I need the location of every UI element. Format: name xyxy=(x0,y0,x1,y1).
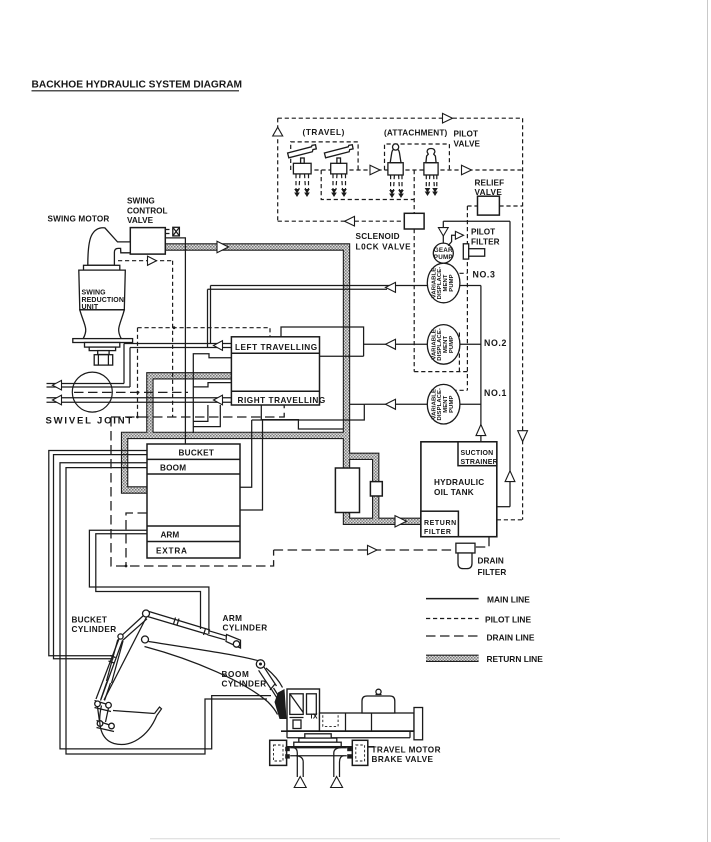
pilot loop dashed top line xyxy=(278,117,523,119)
svg-text:SUCTION: SUCTION xyxy=(461,450,494,457)
svg-text:PILOT: PILOT xyxy=(471,228,495,237)
swash control dashed net xyxy=(414,371,467,373)
gear pump xyxy=(433,243,453,263)
svg-text:BOOM: BOOM xyxy=(160,463,186,472)
svg-text:FILTER: FILTER xyxy=(471,238,500,247)
main line NO.2 xyxy=(364,343,430,345)
svg-text:CYLINDER: CYLINDER xyxy=(223,623,268,632)
swing pilot dashed xyxy=(118,260,173,262)
svg-text:DRAIN: DRAIN xyxy=(478,557,504,566)
brake pipes xyxy=(290,748,347,777)
drain dashed into filter xyxy=(475,537,489,547)
boom cylinder drawing xyxy=(259,667,280,699)
bucket cylinder lines xyxy=(49,451,147,656)
svg-text:(ATTACHMENT): (ATTACHMENT) xyxy=(384,129,448,138)
svg-text:RELIEF: RELIEF xyxy=(475,178,505,187)
small solenoid symbol right of valve xyxy=(165,229,172,231)
bucket cylinder drawing xyxy=(101,640,123,701)
RETURN LINE bands (black edges then hatched core) xyxy=(125,247,479,658)
travelling box bottom ports xyxy=(193,405,208,421)
svg-text:EXTRA: EXTRA xyxy=(156,546,188,555)
svg-text:UNIT: UNIT xyxy=(82,304,99,311)
dashed to solenoid from left with arrow xyxy=(278,220,405,222)
pilot return into tank xyxy=(497,519,523,521)
solenoid drain dashed down xyxy=(413,229,415,372)
svg-text:FILTER: FILTER xyxy=(424,529,452,536)
base rails xyxy=(281,730,414,732)
travel pilot valve 2 xyxy=(324,145,353,197)
svg-text:RIGHT TRAVELLING: RIGHT TRAVELLING xyxy=(238,396,326,405)
variable displacement pump NO.3 xyxy=(427,263,460,303)
travel pilot valve 1 xyxy=(288,145,317,197)
legend drain line sample xyxy=(426,635,479,637)
body deck xyxy=(320,713,415,731)
variable displacement pump NO.1 xyxy=(427,384,460,424)
svg-text:SWING MOTOR: SWING MOTOR xyxy=(48,215,110,224)
swing motor elbow xyxy=(88,228,131,266)
deck dashed swivel marker xyxy=(323,713,338,727)
svg-text:DRAIN LINE: DRAIN LINE xyxy=(487,633,535,643)
svg-text:LEFT TRAVELLING: LEFT TRAVELLING xyxy=(235,343,318,352)
main line NO.1 xyxy=(364,403,430,405)
gear pump suction from tank: top line xyxy=(443,220,510,222)
RT output pair through swivel xyxy=(47,397,232,399)
solenoid feed dashed vertical xyxy=(413,170,415,213)
svg-text:NO.3: NO.3 xyxy=(473,270,496,280)
svg-text:GEAR: GEAR xyxy=(434,247,453,254)
legend pilot line sample xyxy=(426,618,479,620)
travel valves dashed box xyxy=(291,142,358,170)
turntable xyxy=(305,734,331,738)
svg-text:SWING: SWING xyxy=(82,290,107,297)
return arrow into return filter xyxy=(395,516,407,527)
svg-text:FILTER: FILTER xyxy=(478,568,507,577)
pilot dashed to LT top xyxy=(138,328,271,337)
suction strainer xyxy=(458,442,497,466)
LT output pair xyxy=(124,343,231,345)
swivel drain dashed xyxy=(74,391,188,393)
end plate xyxy=(414,708,423,740)
cab xyxy=(287,689,320,731)
svg-text:BRAKE VALVE: BRAKE VALVE xyxy=(372,755,434,764)
svg-text:NO.2: NO.2 xyxy=(484,338,507,348)
pilot loop left vertical xyxy=(277,118,279,221)
bypass check valve xyxy=(370,482,382,496)
swivel pair upper xyxy=(47,383,125,385)
LT-RT crossover jogs xyxy=(193,354,231,433)
svg-text:BOOM: BOOM xyxy=(222,670,250,679)
svg-text:CYLINDER: CYLINDER xyxy=(72,625,117,634)
svg-text:MAIN LINE: MAIN LINE xyxy=(487,595,530,605)
hydraulic oil tank xyxy=(421,442,497,537)
track line xyxy=(269,746,375,748)
pilot loop right vertical xyxy=(522,118,524,520)
svg-text:ARM: ARM xyxy=(223,614,243,623)
svg-text:CONTROL: CONTROL xyxy=(127,206,167,215)
arm beam down-left to bucket xyxy=(96,616,147,701)
arrow right on top dashed line xyxy=(443,113,453,123)
relief valve xyxy=(478,196,500,215)
boom beam xyxy=(149,642,283,688)
gear pump to pilot filter elbow + arrow xyxy=(448,235,455,245)
legend main line sample xyxy=(426,598,479,600)
suction manifold line xyxy=(480,286,482,442)
attachment pilot valve 1 xyxy=(388,144,404,198)
svg-text:NO.1: NO.1 xyxy=(484,388,507,398)
return arrow on swing band xyxy=(217,241,229,252)
attachment pilot valve 2 xyxy=(424,149,438,197)
pilot center dashed line xyxy=(293,169,522,171)
svg-text:(TRAVEL): (TRAVEL) xyxy=(303,128,345,137)
svg-text:PUMP: PUMP xyxy=(434,254,453,261)
svg-text:SWING: SWING xyxy=(127,197,155,206)
page edge line xyxy=(707,0,709,842)
svg-text:BUCKET: BUCKET xyxy=(179,449,215,458)
svg-text:L0CK VALVE: L0CK VALVE xyxy=(356,243,412,252)
lower dashed box xyxy=(321,170,414,200)
main line NO.3 (double) xyxy=(211,285,431,287)
svg-text:OIL TANK: OIL TANK xyxy=(434,488,474,497)
solenoid lock valve xyxy=(404,213,424,229)
svg-text:VALVE: VALVE xyxy=(454,139,481,148)
svg-text:PILOT LINE: PILOT LINE xyxy=(485,615,531,625)
drain filter xyxy=(456,543,475,553)
extra port dashed xyxy=(126,513,147,566)
svg-text:VALVE: VALVE xyxy=(127,216,154,225)
arm cylinder lines xyxy=(89,530,208,634)
svg-text:CYLINDER: CYLINDER xyxy=(222,679,267,688)
arm cylinder drawing xyxy=(148,612,241,649)
svg-text:HYDRAULIC: HYDRAULIC xyxy=(434,478,484,487)
boom cylinder lines xyxy=(60,463,271,749)
svg-text:SCLENOID: SCLENOID xyxy=(356,232,400,241)
boom foot black bracket xyxy=(275,689,287,719)
relief drain dashed vertical (through pilot filter) xyxy=(466,206,468,390)
arrow up on left vertical xyxy=(273,127,283,136)
bucket linkage xyxy=(95,701,112,712)
svg-text:TRAVEL MOTOR: TRAVEL MOTOR xyxy=(372,746,441,755)
engine cover xyxy=(362,696,395,713)
svg-text:RETURN: RETURN xyxy=(424,520,457,527)
swing valve right line down xyxy=(165,238,185,444)
pilot filter xyxy=(463,244,468,259)
svg-text:PILOT: PILOT xyxy=(454,130,479,139)
oil cooler on return band xyxy=(335,468,359,513)
svg-text:BACKHOE HYDRAULIC SYSTEM DIAGR: BACKHOE HYDRAULIC SYSTEM DIAGRAM xyxy=(32,80,243,91)
drain line left xyxy=(111,417,274,566)
attachment valves dashed box xyxy=(385,144,450,170)
svg-text:STRAINER: STRAINER xyxy=(461,459,498,466)
variable displacement pump NO.2 xyxy=(427,325,460,365)
bucket scoop xyxy=(113,707,162,716)
travel motor brake valve left xyxy=(270,740,287,765)
swivel joint xyxy=(72,372,112,412)
travel motor brake valve right xyxy=(352,740,368,765)
svg-text:SWIVEL JOINT: SWIVEL JOINT xyxy=(46,416,134,427)
svg-text:REDUCTION: REDUCTION xyxy=(82,297,125,304)
svg-text:BUCKET: BUCKET xyxy=(72,616,108,625)
swing control valve xyxy=(130,228,165,255)
svg-text:VALVE: VALVE xyxy=(475,188,503,197)
return filter xyxy=(421,511,459,537)
pilot dashed to RT bottom xyxy=(111,405,284,417)
svg-text:ARM: ARM xyxy=(161,531,180,540)
swing reduction unit xyxy=(84,265,120,270)
svg-text:RETURN LINE: RETURN LINE xyxy=(487,654,544,664)
